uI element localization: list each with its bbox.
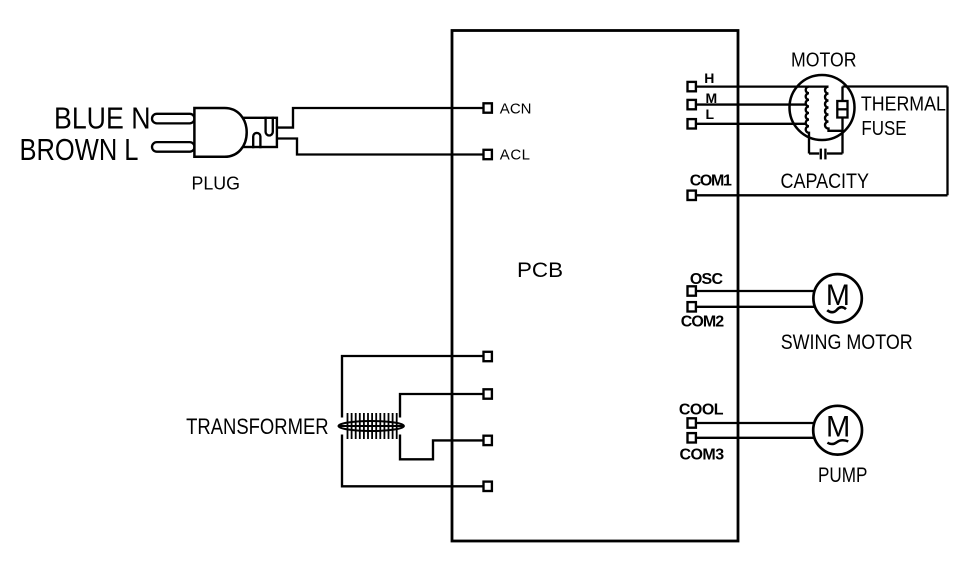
pump tilde: [827, 440, 848, 444]
capacitor right lead: [827, 152, 843, 154]
motor box top edge: [843, 85, 948, 87]
transformer primary-top lead: [342, 356, 483, 418]
svg-text:THERMAL: THERMAL: [861, 92, 946, 115]
terminal T1: [484, 352, 492, 361]
svg-text:SWING MOTOR: SWING MOTOR: [781, 330, 913, 354]
wire COM2: [697, 306, 814, 308]
terminal ACN: [484, 103, 492, 112]
terminal COM1: [688, 191, 696, 200]
svg-text:TRANSFORMER: TRANSFORMER: [186, 414, 329, 439]
transformer primary-bottom lead: [342, 435, 483, 487]
capacitor left lead: [809, 152, 819, 154]
motor left winding coil: [806, 87, 809, 154]
plug prong L (bottom): [152, 142, 195, 152]
svg-text:M: M: [706, 90, 718, 106]
wire H: [697, 85, 829, 87]
terminal T3: [484, 436, 492, 445]
PCB enclosure box: [452, 31, 738, 542]
wire L: [697, 123, 806, 125]
svg-text:M: M: [826, 411, 850, 444]
transformer bobbin ellipse: [339, 421, 404, 431]
transformer core midline: [339, 425, 404, 427]
thermal fuse lower lead: [841, 118, 843, 154]
cord notch top-open: [266, 117, 273, 136]
plug body: [194, 108, 246, 157]
svg-text:FUSE: FUSE: [861, 117, 906, 140]
svg-text:COM3: COM3: [680, 447, 725, 464]
svg-text:COOL: COOL: [679, 401, 724, 418]
transformer secondary-bottom lead: [400, 435, 483, 460]
terminal L: [688, 119, 696, 128]
swing motor tilde: [827, 307, 846, 312]
terminal COOL: [688, 418, 696, 427]
swing motor circle: [813, 274, 861, 322]
motor right winding coil: [825, 87, 843, 131]
terminal ACL: [484, 150, 492, 159]
svg-text:COM1: COM1: [690, 173, 732, 190]
terminal OSC: [688, 286, 696, 295]
terminal T4: [484, 482, 492, 491]
svg-text:PLUG: PLUG: [192, 173, 241, 193]
terminal COM3: [688, 433, 696, 442]
svg-text:OSC: OSC: [690, 271, 724, 288]
svg-text:COM2: COM2: [681, 314, 724, 331]
svg-text:CAPACITY: CAPACITY: [781, 170, 870, 193]
svg-text:BLUE N: BLUE N: [54, 101, 151, 136]
svg-text:PCB: PCB: [517, 259, 563, 282]
terminal COM2: [688, 302, 696, 311]
wire plug to ACL: [277, 139, 483, 155]
cord notch bottom-open: [253, 133, 260, 148]
svg-text:L: L: [706, 106, 715, 122]
terminal T2: [484, 389, 492, 398]
svg-text:ACN: ACN: [500, 101, 532, 118]
wire COOL: [697, 422, 814, 424]
plug prong N (top): [152, 114, 195, 124]
svg-text:ACL: ACL: [500, 147, 530, 164]
transformer secondary-top lead: [400, 394, 483, 418]
thermal fuse body: [837, 101, 847, 118]
capacitor plate right: [824, 149, 826, 160]
svg-text:H: H: [704, 70, 714, 86]
svg-text:M: M: [826, 279, 850, 312]
wire OSC: [697, 290, 814, 292]
wire COM3: [697, 437, 814, 439]
wire plug to ACN: [277, 108, 483, 128]
svg-text:PUMP: PUMP: [818, 463, 867, 487]
terminal H: [688, 82, 696, 91]
svg-text:MOTOR: MOTOR: [791, 48, 857, 71]
capacitor plate left: [820, 149, 822, 160]
motor box right edge: [946, 87, 948, 196]
thermal fuse riser: [841, 87, 843, 102]
wire COM1 / motor box bottom: [697, 194, 948, 196]
wire M: [697, 103, 806, 105]
transformer winding ticks: [348, 413, 397, 439]
motor circle: [790, 75, 855, 140]
svg-text:BROWN L: BROWN L: [20, 132, 139, 167]
terminal M: [688, 100, 696, 109]
plug cord connector: [242, 118, 277, 147]
pump circle: [813, 406, 862, 455]
thermal fuse midline: [837, 108, 847, 110]
